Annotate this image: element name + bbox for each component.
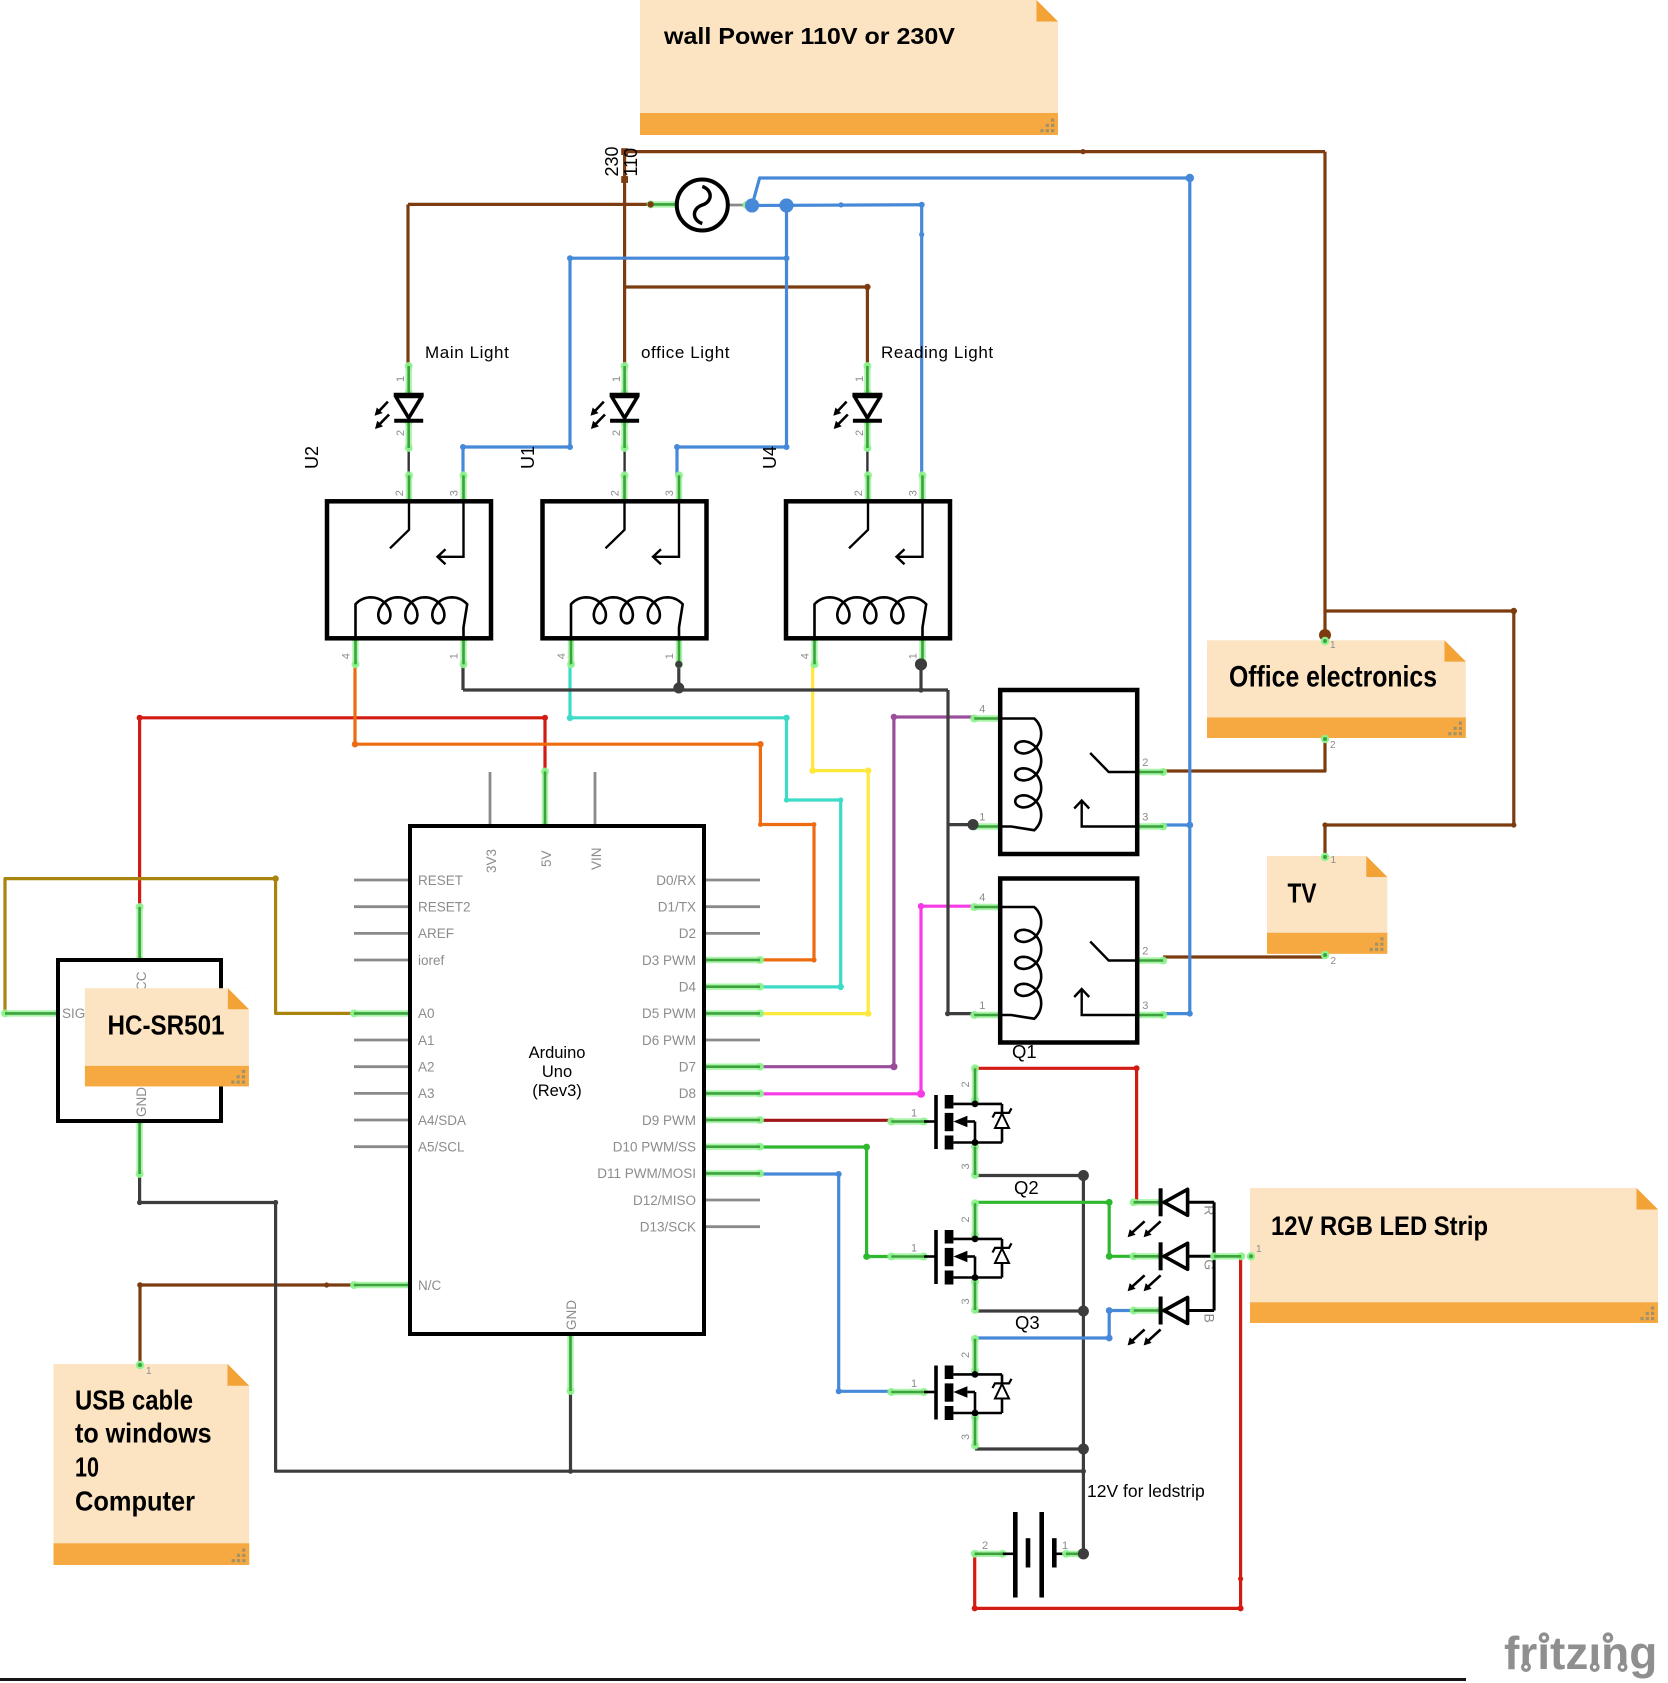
svg-text:GND: GND <box>134 1087 149 1117</box>
wire 230/110 live drop to office LED <box>621 148 628 366</box>
wire AC neutral to U1 pin3 (blue) <box>674 206 790 476</box>
svg-text:Computer: Computer <box>75 1485 195 1516</box>
svg-text:2: 2 <box>1142 946 1148 958</box>
svg-text:1: 1 <box>611 376 623 382</box>
svg-text:2: 2 <box>394 490 406 496</box>
wire live to TV note <box>1322 608 1517 856</box>
svg-text:4: 4 <box>341 653 353 659</box>
svg-text:3: 3 <box>960 1434 972 1440</box>
wire Q2 drain to G LED (green) <box>975 1199 1134 1260</box>
svg-text:2: 2 <box>610 490 622 496</box>
svg-text:D3 PWM: D3 PWM <box>642 953 696 968</box>
transistor Q3 <box>887 1335 1011 1450</box>
svg-text:2: 2 <box>1142 757 1148 769</box>
svg-text:1: 1 <box>1330 640 1336 651</box>
svg-text:USB cable: USB cable <box>75 1384 193 1415</box>
svg-text:Main Light: Main Light <box>425 343 509 362</box>
LED Main Light <box>375 362 424 452</box>
svg-text:Q3: Q3 <box>1015 1312 1040 1333</box>
svg-text:10: 10 <box>75 1451 99 1482</box>
svg-text:110: 110 <box>621 148 641 177</box>
svg-text:2: 2 <box>1330 740 1336 751</box>
wire 12V ground bus (gray) <box>975 1170 1089 1554</box>
svg-text:1: 1 <box>911 1108 917 1120</box>
wire Q1 drain to R LED (red) <box>973 1065 1139 1202</box>
svg-text:Arduino: Arduino <box>529 1044 586 1062</box>
svg-text:2: 2 <box>853 490 865 496</box>
svg-text:Uno: Uno <box>542 1063 572 1081</box>
relay B <box>970 879 1167 1043</box>
svg-text:D1/TX: D1/TX <box>658 900 696 915</box>
battery 12V <box>971 1512 1089 1598</box>
svg-text:1: 1 <box>911 1378 917 1390</box>
svg-text:D0/RX: D0/RX <box>656 873 696 888</box>
svg-text:1: 1 <box>395 376 407 382</box>
label note pin numbers <box>146 640 1337 1377</box>
wire relay U1 pin4 to D4 (cyan) <box>567 664 844 990</box>
svg-text:RESET: RESET <box>418 873 463 888</box>
svg-text:(Rev3): (Rev3) <box>532 1082 582 1100</box>
AC source V1 <box>647 180 756 231</box>
svg-text:to windows: to windows <box>75 1418 212 1449</box>
svg-text:A0: A0 <box>418 1006 435 1021</box>
wire D7 to relay A pin4 (purple) <box>757 714 975 1070</box>
wire AC live bus to Main Light <box>408 201 654 366</box>
svg-text:B: B <box>1202 1314 1218 1323</box>
svg-text:4: 4 <box>800 653 812 659</box>
wire D11 to Q3 gate (blue) <box>760 1171 891 1394</box>
svg-text:12V for ledstrip: 12V for ledstrip <box>1087 1481 1205 1501</box>
svg-text:D4: D4 <box>679 980 697 995</box>
svg-text:3: 3 <box>960 1298 972 1304</box>
LED G <box>1128 1242 1218 1291</box>
svg-text:N/C: N/C <box>418 1278 442 1293</box>
bottom edge line <box>0 1678 1466 1681</box>
note 12V RGB LED Strip <box>1250 1188 1658 1323</box>
relay A <box>970 690 1167 854</box>
svg-text:1: 1 <box>1331 855 1337 866</box>
wire AC neutral to U2 pin3 (blue) <box>460 255 787 475</box>
wire battery + to LED strip (red) <box>972 1257 1244 1611</box>
LED Reading Light <box>833 362 882 452</box>
svg-text:230: 230 <box>602 146 622 176</box>
svg-text:4: 4 <box>556 653 568 659</box>
wire Q3 drain to B LED (blue) <box>975 1307 1134 1341</box>
svg-text:D11 PWM/MOSI: D11 PWM/MOSI <box>597 1166 696 1181</box>
wire Arduino GND drop (gray) <box>569 1391 572 1471</box>
svg-text:Reading Light: Reading Light <box>881 343 994 362</box>
note Office electronics <box>1207 640 1466 738</box>
svg-text:1: 1 <box>911 1243 917 1255</box>
LED R <box>1128 1188 1218 1237</box>
svg-text:SIG: SIG <box>62 1006 85 1021</box>
svg-text:D8: D8 <box>679 1086 696 1101</box>
svg-text:1: 1 <box>1062 1540 1068 1552</box>
node note pins <box>136 637 1329 1369</box>
svg-text:wall Power 110V or 230V: wall Power 110V or 230V <box>663 23 956 49</box>
svg-text:3: 3 <box>1142 812 1148 824</box>
svg-text:D13/SCK: D13/SCK <box>640 1220 696 1235</box>
wire relay A pin2 to Office note pin2 <box>1163 740 1325 771</box>
svg-text:2: 2 <box>982 1540 988 1552</box>
svg-text:U1: U1 <box>518 446 538 469</box>
svg-text:3: 3 <box>664 490 676 496</box>
wire LED cathode links (gray) <box>409 448 868 474</box>
svg-text:4: 4 <box>979 892 985 904</box>
wire live drop to Office electronics note <box>1319 152 1331 641</box>
wire live top bus <box>625 149 1325 154</box>
wire relay U4 pin4 to D5 (yellow) <box>757 664 871 1016</box>
svg-text:3V3: 3V3 <box>484 849 499 873</box>
svg-text:D5 PWM: D5 PWM <box>642 1006 696 1021</box>
svg-text:1: 1 <box>979 812 985 824</box>
wire RGB LED anode bracket <box>1210 1202 1245 1310</box>
svg-text:3: 3 <box>449 490 461 496</box>
svg-text:1: 1 <box>979 1000 985 1012</box>
svg-text:1: 1 <box>1256 1244 1262 1255</box>
wire D9 to Q1 gate (dark red) <box>758 1118 894 1123</box>
svg-text:D6 PWM: D6 PWM <box>642 1033 696 1048</box>
svg-text:office Light: office Light <box>641 343 730 362</box>
wire HC-SR501 GND to common ground (gray) <box>137 1174 1083 1474</box>
note USB cable to windows 10 Computer <box>54 1364 250 1565</box>
transistor Q1 <box>887 1064 1011 1179</box>
svg-text:D7: D7 <box>679 1060 696 1075</box>
wire HC-SR501 SIG to A0 (olive) <box>5 875 354 1013</box>
wire D8 to relay B pin4 (magenta) <box>757 903 975 1098</box>
svg-text:TV: TV <box>1288 877 1317 908</box>
wire relay B pin2 to TV note pin2 <box>1163 955 1325 958</box>
svg-text:3: 3 <box>908 490 920 496</box>
svg-text:2: 2 <box>611 430 623 436</box>
IC Arduino Uno <box>350 768 764 1396</box>
LED office Light <box>591 362 640 452</box>
svg-text:2: 2 <box>395 430 407 436</box>
svg-text:3: 3 <box>1142 1000 1148 1012</box>
svg-text:D12/MISO: D12/MISO <box>633 1193 696 1208</box>
svg-text:4: 4 <box>979 704 985 716</box>
note TV <box>1267 856 1387 954</box>
svg-text:A2: A2 <box>418 1060 435 1075</box>
svg-text:2: 2 <box>960 1081 972 1087</box>
svg-text:AREF: AREF <box>418 926 454 941</box>
wire 5V to HC-SR501 VCC (red) <box>137 715 548 907</box>
svg-text:Q2: Q2 <box>1014 1177 1039 1198</box>
svg-text:A3: A3 <box>418 1086 435 1101</box>
svg-text:1: 1 <box>146 1366 152 1377</box>
svg-text:GND: GND <box>564 1300 579 1330</box>
svg-text:1: 1 <box>854 376 866 382</box>
svg-text:12V RGB LED Strip: 12V RGB LED Strip <box>1271 1211 1488 1241</box>
LED B <box>1128 1297 1218 1346</box>
svg-text:2: 2 <box>960 1352 972 1358</box>
svg-text:D2: D2 <box>679 926 696 941</box>
svg-text:A5/SCL: A5/SCL <box>418 1140 465 1155</box>
svg-text:1: 1 <box>449 653 461 659</box>
svg-text:VIN: VIN <box>589 847 604 870</box>
node wire junctions over pins <box>647 199 1089 1560</box>
relay U1 <box>543 471 707 668</box>
wire AC neutral to U4 pin3 (blue) <box>745 199 925 476</box>
svg-text:2: 2 <box>1331 956 1337 967</box>
note HC-SR501 <box>85 988 249 1086</box>
sensor HC-SR501 <box>1 903 221 1178</box>
svg-text:2: 2 <box>960 1216 972 1222</box>
wire switched-live bus U2/U1/U4 pin1 to relays A,B pin1 (gray) <box>463 658 979 1016</box>
svg-text:2: 2 <box>854 430 866 436</box>
svg-text:Office electronics: Office electronics <box>1229 661 1437 694</box>
relay U2 <box>327 471 491 668</box>
wire Arduino N/C to USB note <box>137 1282 356 1364</box>
svg-text:ioref: ioref <box>418 953 445 968</box>
svg-text:U2: U2 <box>302 446 322 469</box>
svg-text:5V: 5V <box>539 850 554 867</box>
wire AC neutral riser to relays A/B pin3 (blue) <box>752 174 1194 1017</box>
svg-text:1: 1 <box>664 653 676 659</box>
relay U4 <box>786 471 950 668</box>
svg-text:D9 PWM: D9 PWM <box>642 1113 696 1128</box>
svg-text:D10 PWM/SS: D10 PWM/SS <box>613 1140 696 1155</box>
wire live branch to Reading LED <box>625 284 871 366</box>
fritzing watermark <box>1504 1627 1657 1679</box>
svg-text:A1: A1 <box>418 1033 435 1048</box>
svg-text:A4/SDA: A4/SDA <box>418 1113 466 1128</box>
note wall Power 110V or 230V <box>640 0 1058 135</box>
svg-text:RESET2: RESET2 <box>418 900 471 915</box>
svg-text:1: 1 <box>908 653 920 659</box>
wire D10 to Q2 gate (green) <box>760 1144 891 1260</box>
svg-text:HC-SR501: HC-SR501 <box>108 1010 225 1041</box>
svg-text:Q1: Q1 <box>1012 1041 1037 1062</box>
wire relay U2 pin4 to D3 (orange) <box>352 664 817 962</box>
svg-text:U4: U4 <box>760 446 780 469</box>
transistor Q2 <box>887 1199 1011 1314</box>
svg-text:3: 3 <box>960 1163 972 1169</box>
